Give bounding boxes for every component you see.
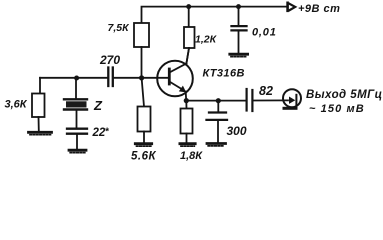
resistor 1,2K	[184, 7, 218, 64]
node emitter junction	[184, 98, 189, 103]
svg-text:КТ316В: КТ316В	[203, 68, 245, 80]
node rail junction to 0,01	[236, 4, 241, 9]
svg-text:0,01: 0,01	[252, 27, 277, 39]
wire emitter to 82 cap	[186, 100, 245, 102]
svg-text:270: 270	[99, 53, 120, 67]
node rail junction to 1,2K	[186, 4, 191, 9]
svg-text:+9В ст: +9В ст	[298, 3, 340, 15]
capacitor 82	[247, 84, 273, 111]
crystal Z	[64, 78, 103, 128]
output connector socket	[283, 89, 301, 108]
capacitor 300	[207, 101, 247, 142]
svg-text:~ 150 мВ: ~ 150 мВ	[309, 103, 365, 115]
resistor 3,6K	[5, 94, 45, 132]
wire top supply rail	[142, 7, 287, 23]
resistor 1,8K	[180, 101, 203, 162]
wire 82 cap to output connector	[254, 99, 289, 101]
svg-text:3,6К: 3,6К	[5, 99, 28, 111]
ground under 1,8K	[180, 144, 195, 146]
node crystal junction	[74, 76, 79, 81]
svg-text:1,8К: 1,8К	[180, 150, 203, 162]
wire base line left segment	[40, 77, 107, 79]
svg-text:Выход 5МГц: Выход 5МГц	[306, 89, 383, 101]
node divider junction	[139, 75, 144, 80]
label output text	[306, 89, 383, 115]
resistor 5,6K	[131, 78, 156, 163]
ground under 0,01	[230, 54, 248, 56]
ground under 5,6K	[135, 144, 151, 146]
node 300 junction	[216, 98, 221, 103]
ground under 22*	[69, 150, 86, 152]
svg-text:5.6К: 5.6К	[131, 151, 156, 163]
wire 7,5K bottom lead to base node	[141, 47, 143, 78]
capacitor 270	[99, 53, 120, 86]
resistor 7,5K	[108, 22, 150, 47]
svg-text:1,2К: 1,2К	[195, 34, 218, 46]
capacitor 22*	[67, 127, 110, 149]
svg-text:300: 300	[227, 124, 247, 138]
svg-text:82: 82	[259, 84, 273, 98]
capacitor 0,01	[232, 7, 277, 53]
wire left corner down to 3,6K	[39, 78, 41, 94]
wire base line right segment into transistor base	[114, 77, 169, 79]
power arrow +9V st	[288, 3, 341, 15]
ground under 300	[207, 144, 226, 146]
svg-text:Z: Z	[93, 98, 103, 113]
svg-text:22: 22	[92, 127, 106, 139]
ground under 3,6K	[29, 132, 52, 134]
transistor KT316V	[157, 48, 245, 101]
svg-text:7,5К: 7,5К	[108, 22, 131, 34]
